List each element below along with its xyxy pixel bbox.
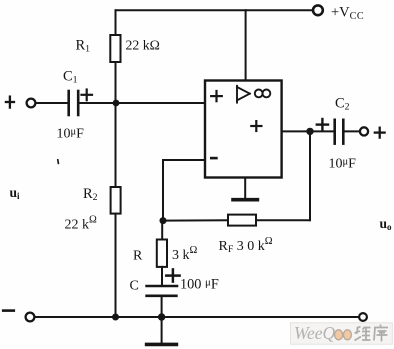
plus sign after C1 (82, 90, 93, 101)
terminal input bottom (26, 313, 35, 322)
wire power lead to op-amp (245, 10, 247, 80)
svg-text:R: R (133, 249, 143, 264)
wire left vertical branch lower (115, 214, 117, 317)
op-amp infinity gain symbol (255, 90, 270, 98)
resistor RF (228, 215, 256, 226)
ground below op-amp (244, 178, 246, 199)
plus sign above C (166, 269, 179, 281)
node B junction dot (160, 217, 167, 224)
capacitor C plates (147, 286, 177, 296)
resistor R1 (110, 35, 120, 62)
wire RF to output branch (256, 219, 310, 221)
output node junction dot (306, 128, 313, 135)
svg-text:R1: R1 (76, 38, 91, 55)
wire top supply rail (116, 9, 313, 11)
minus sign at bottom input terminal (3, 309, 14, 312)
svg-text:C: C (130, 279, 139, 294)
terminal +VCC (313, 5, 323, 15)
resistor R (157, 240, 167, 267)
terminal output bottom (359, 313, 367, 321)
wire node A to op-amp plus input (116, 102, 205, 104)
svg-text:RF 3 0 kΩ: RF 3 0 kΩ (219, 236, 273, 255)
wire R top lead (161, 221, 163, 240)
svg-text:WeeQ: WeeQ (294, 323, 336, 343)
terminal input top (27, 99, 36, 108)
op-amp triangle symbol (237, 86, 250, 103)
plus sign at output terminal (375, 128, 385, 138)
svg-text:C1: C1 (63, 69, 78, 86)
plus sign at input terminal (6, 97, 14, 108)
wire left vertical branch upper (115, 103, 117, 187)
svg-text:uo: uo (380, 216, 393, 232)
wire node B to RF (163, 219, 228, 221)
ground at bottom (161, 317, 163, 343)
svg-text:100 μF: 100 μF (180, 277, 219, 293)
op-amp U1 body (205, 81, 282, 178)
node A junction dot (113, 100, 120, 107)
svg-text:10μF: 10μF (329, 157, 357, 172)
capacitor C1 plates (69, 91, 79, 115)
svg-text:R2: R2 (83, 186, 98, 203)
wire op-amp output (282, 130, 310, 132)
watermark CJK glyph ku (374, 325, 388, 342)
watermark CJK glyph wei (355, 327, 371, 341)
plus sign before C2 (317, 119, 328, 130)
svg-text:3 kΩ: 3 kΩ (172, 245, 198, 263)
wire R1 bottom lead (115, 62, 117, 103)
bottom rail junction dot left (112, 314, 119, 321)
wire op-amp minus input (163, 159, 205, 161)
svg-text:22 kΩ: 22 kΩ (126, 38, 160, 53)
op-amp output plus label (251, 121, 261, 131)
op-amp minus input label (211, 157, 216, 160)
wire C2 to output terminal (345, 130, 360, 132)
wire output node to C2 (310, 130, 333, 132)
watermark box (291, 323, 393, 344)
svg-text:22 kΩ: 22 kΩ (65, 215, 98, 233)
wire C bottom lead (161, 297, 163, 317)
resistor R2 (111, 187, 121, 214)
stray scan mark (57, 160, 60, 164)
svg-text:10μF: 10μF (57, 127, 85, 142)
wire bottom rail (35, 316, 360, 318)
svg-text:C2: C2 (335, 96, 350, 113)
terminal output (360, 127, 368, 135)
op-amp plus input label (211, 91, 222, 101)
wire R1 top lead (115, 10, 117, 35)
bottom rail junction dot mid (158, 313, 165, 320)
svg-text:ui: ui (10, 185, 21, 201)
svg-text:+VCC: +VCC (331, 5, 364, 23)
wire C1 input lead (36, 102, 68, 104)
wire R bottom lead (161, 267, 163, 285)
capacitor C2 plates (335, 120, 344, 144)
wire C1 to node A (80, 102, 117, 104)
